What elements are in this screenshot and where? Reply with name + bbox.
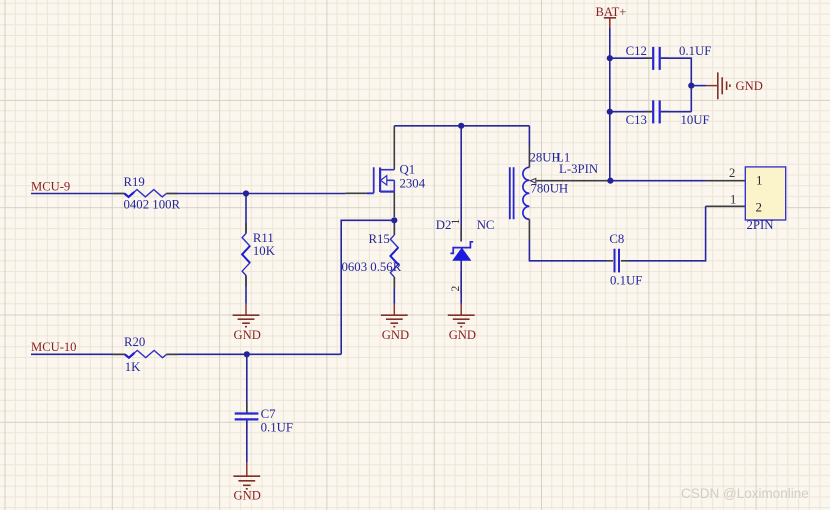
svg-text:R19: R19: [124, 175, 145, 189]
svg-text:D2: D2: [436, 218, 452, 232]
svg-text:GND: GND: [736, 79, 763, 93]
resistor R15: [342, 224, 402, 288]
connector 2PIN: [706, 166, 786, 232]
ground symbol GND (below R15): [381, 304, 409, 342]
wire: [460, 260, 462, 303]
wire: [610, 180, 705, 182]
resistor R20: [112, 335, 178, 374]
ground symbol GND (below R11): [233, 304, 261, 342]
svg-text:780UH: 780UH: [531, 182, 569, 196]
svg-text:MCU-10: MCU-10: [31, 340, 76, 354]
svg-text:GND: GND: [449, 328, 476, 342]
svg-text:C8: C8: [609, 232, 624, 246]
svg-text:GND: GND: [234, 328, 261, 342]
ground symbol GND (below C7): [233, 463, 260, 503]
inductor L1: [510, 147, 611, 241]
svg-text:2: 2: [756, 200, 763, 215]
svg-text:10K: 10K: [253, 244, 276, 258]
wire: [341, 220, 394, 354]
wire: [661, 111, 692, 113]
svg-text:1: 1: [450, 219, 462, 225]
svg-text:NC: NC: [477, 218, 495, 232]
svg-text:C12: C12: [626, 44, 647, 58]
ground symbol GND (below D2): [448, 304, 476, 342]
wire (top rail): [394, 125, 529, 127]
transistor Q1: [345, 126, 425, 217]
svg-text:C7: C7: [261, 407, 277, 421]
svg-text:CSDN @Loximonline: CSDN @Loximonline: [681, 486, 809, 501]
capacitor C7: [235, 403, 293, 435]
svg-text:1: 1: [730, 192, 736, 206]
wire: [246, 421, 248, 463]
wire: [460, 126, 462, 242]
svg-text:R15: R15: [369, 232, 390, 246]
svg-text:MCU-9: MCU-9: [31, 180, 70, 194]
wire: [629, 206, 706, 260]
wire: [610, 57, 652, 59]
wire: [691, 85, 706, 87]
svg-text:GND: GND: [382, 328, 409, 342]
resistor R19: [114, 175, 181, 212]
ground symbol GND (right of C12/C13): [706, 72, 763, 99]
svg-text:GND: GND: [234, 489, 261, 503]
svg-text:1K: 1K: [125, 360, 141, 374]
wire: [31, 353, 341, 355]
capacitor C13: [626, 100, 710, 127]
svg-text:2304: 2304: [400, 176, 426, 190]
wire: [528, 126, 530, 147]
capacitor C8: [606, 232, 643, 287]
capacitor C12: [626, 44, 712, 70]
svg-text:C13: C13: [626, 113, 647, 127]
wire: [529, 240, 605, 261]
svg-text:0.1UF: 0.1UF: [679, 44, 711, 58]
wire: [246, 354, 248, 412]
svg-text:2: 2: [450, 286, 462, 292]
power port BAT+: [596, 5, 627, 28]
junction: [391, 217, 397, 223]
junction: [607, 55, 613, 61]
wire: [609, 28, 611, 181]
junction: [607, 109, 613, 115]
svg-text:Q1: Q1: [400, 162, 416, 176]
svg-text:0603 0.56R: 0603 0.56R: [342, 260, 402, 274]
wire: [245, 194, 247, 304]
junction: [688, 83, 694, 89]
svg-text:2: 2: [729, 166, 735, 180]
svg-text:2PIN: 2PIN: [747, 218, 774, 232]
svg-text:1: 1: [756, 173, 763, 188]
wire: [393, 220, 395, 303]
svg-text:L-3PIN: L-3PIN: [559, 162, 598, 176]
svg-text:0402 100R: 0402 100R: [124, 198, 181, 212]
wire: [661, 58, 692, 111]
junction: [607, 178, 613, 184]
diode D2: [436, 218, 473, 294]
svg-text:R20: R20: [124, 335, 145, 349]
junction: [243, 190, 249, 196]
wire: [31, 193, 345, 195]
svg-text:10UF: 10UF: [681, 113, 710, 127]
junction: [244, 351, 250, 357]
wire: [610, 111, 652, 113]
junction: [458, 123, 464, 129]
wire: [706, 180, 746, 182]
resistor R11: [242, 223, 276, 287]
svg-text:0.1UF: 0.1UF: [261, 421, 293, 435]
svg-text:0.1UF: 0.1UF: [610, 273, 642, 287]
